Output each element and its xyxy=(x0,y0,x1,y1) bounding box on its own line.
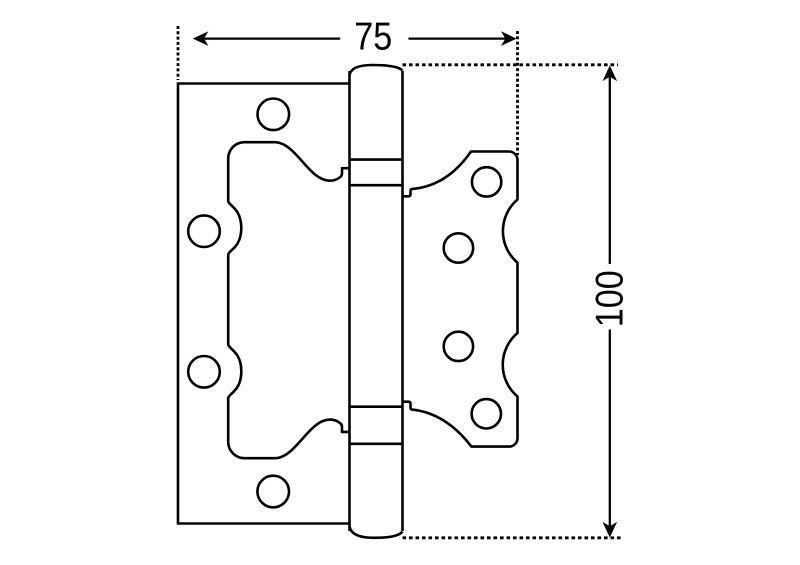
knuckle joint line 4 xyxy=(350,442,403,445)
width arrowhead left xyxy=(193,31,209,46)
screw hole L1 (left leaf top) xyxy=(258,99,290,131)
screw hole L2 (left leaf upper-left) xyxy=(188,215,220,247)
left leaf plate outline xyxy=(178,84,350,524)
screw hole R3 (right leaf lower-mid) xyxy=(444,332,473,361)
right leaf plate outline xyxy=(403,152,518,447)
svg-text:75: 75 xyxy=(354,16,392,59)
left leaf decorative cutout xyxy=(228,142,349,458)
barrel right edge xyxy=(401,71,404,531)
height dimension line bottom segment xyxy=(609,330,611,527)
svg-text:100: 100 xyxy=(589,270,632,327)
height dimension line top segment xyxy=(609,77,611,264)
width arrowhead right xyxy=(501,31,517,46)
height arrowhead top xyxy=(603,66,618,82)
height arrowhead bottom xyxy=(603,522,618,538)
extension line bottom (dotted) xyxy=(403,536,623,539)
screw hole L4 (left leaf bottom) xyxy=(257,476,289,508)
width dimension line left segment xyxy=(204,37,340,39)
knuckle joint line 1 xyxy=(350,158,403,161)
screw hole R4 (right leaf bottom) xyxy=(472,399,501,428)
knuckle joint line 2 xyxy=(350,184,403,187)
barrel top cap xyxy=(350,65,403,76)
barrel bottom cap xyxy=(350,527,403,538)
extension line top (dotted) xyxy=(403,63,619,66)
width dimension line right segment xyxy=(409,37,506,39)
screw hole R2 (right leaf upper-mid) xyxy=(444,233,473,262)
knuckle joint line 3 xyxy=(350,405,403,408)
barrel left edge xyxy=(348,71,351,531)
screw hole R1 (right leaf top) xyxy=(472,167,501,196)
screw hole L3 (left leaf lower-left) xyxy=(188,356,220,388)
extension line right (dotted) xyxy=(516,31,519,155)
extension line left (dotted) xyxy=(177,26,180,80)
